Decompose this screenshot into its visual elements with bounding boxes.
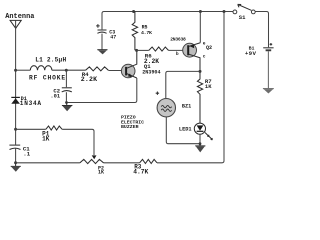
label: Q1 bbox=[144, 63, 151, 70]
node junction: C2 / emitter loop / ground bbox=[65, 101, 68, 104]
wire: node to R6 bbox=[137, 49, 149, 51]
label: LED1 bbox=[179, 126, 192, 132]
pin label: c (Q2 collector) bbox=[203, 54, 206, 59]
value label: 2.2K (R4) bbox=[81, 76, 98, 83]
switch S1 lever with arrow bbox=[238, 4, 252, 10]
label: P1 bbox=[42, 131, 50, 138]
wire: L1 right lead to node bbox=[52, 69, 86, 71]
wire: top rail bbox=[102, 12, 233, 30]
LED1 body bbox=[194, 123, 205, 134]
resistor R6 bbox=[149, 47, 169, 51]
LED1 cathode bar bbox=[197, 130, 204, 132]
value label: 4.7K (R3) bbox=[133, 169, 148, 176]
svg-text:2N3638: 2N3638 bbox=[170, 36, 186, 42]
label: C2 bbox=[53, 87, 60, 94]
wire: bottom rail left segment bbox=[16, 162, 80, 164]
value label: 2N3638 bbox=[170, 36, 186, 42]
pin label: b (Q2 base) bbox=[176, 51, 179, 57]
svg-text:2.2K: 2.2K bbox=[81, 76, 98, 83]
wire: L1 left lead bbox=[16, 69, 31, 71]
svg-text:1K: 1K bbox=[42, 135, 50, 142]
wire: C2 bottom lead bbox=[65, 92, 67, 102]
transistor Q1 collector lead bbox=[127, 50, 137, 68]
wire: antenna vertical bus x=15.6 (top to C1 top plate) bbox=[15, 20, 17, 144]
svg-text:L1 2.5µH: L1 2.5µH bbox=[35, 57, 66, 64]
LED1 emission arrows bbox=[205, 133, 212, 140]
label: D1 bbox=[21, 96, 27, 102]
wire: bottom rail mid segment bbox=[104, 162, 140, 164]
value label: 2N3904 bbox=[142, 70, 160, 76]
transistor Q2 emitter arrow (PNP) bbox=[190, 45, 194, 49]
label: C3 bbox=[109, 30, 115, 36]
svg-text:2N3904: 2N3904 bbox=[142, 70, 160, 76]
svg-text:+9V: +9V bbox=[245, 50, 257, 57]
node junction: C2 top / L1 right bbox=[65, 69, 68, 72]
node junction: right-side rail tap bbox=[223, 10, 226, 13]
resistor R3 bbox=[140, 159, 157, 163]
svg-text:47: 47 bbox=[110, 34, 116, 40]
antenna symbol bbox=[10, 20, 21, 28]
wire: LED bottom lead bbox=[199, 134, 201, 143]
label: R6 bbox=[145, 52, 152, 59]
svg-text:b: b bbox=[176, 51, 179, 57]
value label: 4.7K (R5) bbox=[141, 30, 152, 36]
potentiometer P1 body bbox=[46, 126, 62, 130]
label: S1 bbox=[239, 14, 246, 21]
value label: .01 bbox=[50, 93, 60, 99]
svg-text:.1: .1 bbox=[23, 151, 30, 158]
potentiometer P2 wiper arrow bbox=[92, 155, 97, 159]
label: PIEZO bbox=[121, 114, 136, 120]
diode D1 (1N34A) cathode bar bbox=[11, 96, 20, 98]
battery B1 plus mark bbox=[270, 43, 273, 46]
wire: buzzer bottom to LED ground node bbox=[166, 117, 200, 144]
battery B1 negative plate bbox=[266, 49, 272, 51]
transistor Q2 body bbox=[183, 43, 197, 57]
value label: L1 2.5uH bbox=[35, 57, 66, 64]
inductor L1 bbox=[30, 66, 52, 71]
wire: R6 to Q2 base bbox=[169, 49, 188, 51]
label: R4 bbox=[82, 71, 89, 78]
transistor Q1 body bbox=[121, 64, 135, 78]
value label: 1K (R7) bbox=[205, 83, 212, 90]
svg-text:1K: 1K bbox=[205, 83, 212, 90]
ground symbol (C3) bbox=[97, 50, 107, 55]
resistor R5 bbox=[132, 12, 137, 51]
ground symbol (battery) bbox=[263, 89, 274, 94]
svg-text:4.7K: 4.7K bbox=[133, 169, 148, 176]
wire: Q1 emitter down and ground-return loop to C2 node bbox=[67, 78, 137, 103]
wire: R4 to Q1 base bbox=[108, 70, 125, 72]
node: antenna label bbox=[5, 13, 34, 21]
transistor Q1 emitter lead bbox=[127, 74, 137, 78]
switch S1 contact circle left bbox=[233, 10, 237, 14]
capacitor C1 top plate bbox=[9, 144, 20, 146]
label: BUZZER bbox=[121, 124, 139, 130]
node junction: L1 left bbox=[14, 69, 17, 72]
wire: antenna bus below C1 to bottom rail bbox=[15, 149, 17, 163]
wire: C3 bottom lead bbox=[101, 34, 103, 50]
transistor Q2 base bar bbox=[187, 45, 189, 55]
switch S1 contact circle right bbox=[251, 10, 255, 14]
capacitor C3 top plate bbox=[98, 29, 107, 31]
buzzer BZ1 wave symbol bbox=[161, 105, 171, 111]
value label: .1 bbox=[23, 151, 30, 158]
capacitor C3 bottom plate (curved) bbox=[97, 32, 106, 33]
label: BZ1 bbox=[182, 103, 191, 109]
ground symbol (bottom left) bbox=[11, 163, 21, 172]
capacitor C2 bottom plate (curved) bbox=[62, 91, 72, 92]
resistor R4 bbox=[86, 67, 109, 71]
capacitor C1 bottom plate (curved) bbox=[10, 148, 21, 149]
transistor Q2 collector lead bbox=[189, 54, 200, 71]
svg-text:1K: 1K bbox=[98, 170, 104, 176]
svg-text:LED1: LED1 bbox=[179, 126, 192, 132]
capacitor C3 plus polarity mark bbox=[96, 24, 100, 28]
capacitor C2 top plate bbox=[62, 87, 72, 89]
label: Q2 bbox=[206, 45, 212, 51]
label: P2 bbox=[98, 165, 104, 171]
wire: P1 to P2 wiper bbox=[62, 129, 94, 155]
value label: 1K (P2) bbox=[98, 170, 104, 176]
node junction: R5 top bbox=[132, 10, 135, 13]
svg-text:RF CHOKE: RF CHOKE bbox=[29, 75, 66, 82]
wire: S1 to battery top bbox=[255, 12, 268, 48]
battery B1 positive plate bbox=[263, 47, 273, 49]
potentiometer P2 body bbox=[80, 159, 104, 163]
svg-text:.01: .01 bbox=[50, 93, 60, 99]
value label: +9V bbox=[245, 50, 257, 57]
piezo buzzer BZ1 body bbox=[157, 99, 175, 117]
svg-text:2.2K: 2.2K bbox=[144, 58, 159, 65]
pin label: e (Q2 emitter) bbox=[203, 42, 206, 47]
value label: 1K (P1) bbox=[42, 135, 50, 142]
node junction: LED / buzzer ground node bbox=[199, 142, 202, 145]
label: R5 bbox=[142, 25, 148, 31]
svg-text:BZ1: BZ1 bbox=[182, 103, 191, 109]
transistor Q2 emitter lead bbox=[189, 43, 201, 47]
transistor Q1 emitter arrow (NPN) bbox=[128, 74, 132, 78]
ground symbol (C2 node) bbox=[62, 103, 73, 112]
value label: 47 bbox=[110, 34, 116, 40]
svg-text:R5: R5 bbox=[142, 25, 148, 31]
svg-text:S1: S1 bbox=[239, 14, 246, 21]
svg-text:Antenna: Antenna bbox=[5, 13, 34, 21]
buzzer plus polarity mark bbox=[156, 92, 159, 95]
diode D1 triangle bbox=[11, 98, 20, 104]
wire: P1 left lead bbox=[16, 128, 46, 130]
transistor Q1 base bar bbox=[125, 67, 127, 76]
node junction: bottom-left ground node bbox=[14, 161, 17, 164]
node junction: Q2 collector / buzzer / R7 bbox=[199, 70, 202, 73]
wire: bottom rail right segment up the right side bbox=[157, 12, 224, 163]
value label: 2.2K (R6) bbox=[144, 58, 159, 65]
wire: node to buzzer top bbox=[166, 71, 200, 98]
svg-text:4.7K: 4.7K bbox=[141, 30, 152, 36]
wire: C2 top lead bbox=[65, 70, 67, 87]
svg-text:1N34A: 1N34A bbox=[20, 100, 42, 107]
wire: battery negative lead down bbox=[267, 51, 269, 88]
wire: Q2 emitter to top rail bbox=[199, 12, 201, 43]
svg-text:c: c bbox=[203, 54, 206, 59]
ground symbol (LED node) bbox=[195, 144, 205, 153]
label: R3 bbox=[134, 163, 142, 170]
label: R7 bbox=[205, 78, 212, 85]
label: RF CHOKE bbox=[29, 75, 66, 82]
resistor R7 bbox=[197, 71, 202, 123]
node junction: R5/R6/Q1 collector bbox=[135, 49, 138, 52]
node junction: Q2 emitter rail tap bbox=[199, 10, 202, 13]
node junction: P1 tap bbox=[14, 128, 17, 131]
label: C1 bbox=[23, 146, 30, 153]
label: ELECTRIC bbox=[121, 119, 144, 125]
svg-text:Q2: Q2 bbox=[206, 45, 212, 51]
svg-text:BUZZER: BUZZER bbox=[121, 124, 139, 130]
LED1 anode triangle bbox=[197, 125, 204, 130]
value label: 1N34A bbox=[20, 100, 42, 107]
label: B1 bbox=[249, 46, 255, 52]
